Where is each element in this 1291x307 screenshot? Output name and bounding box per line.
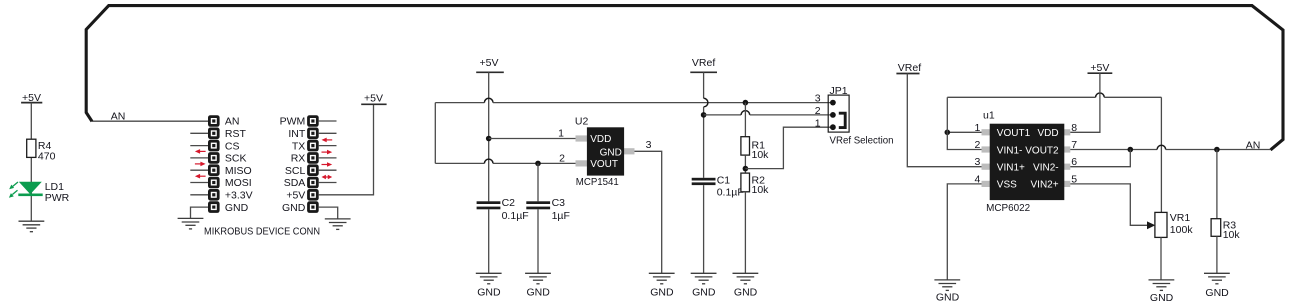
power symbol +5V (LED branch) [21,92,42,104]
red direction arrows right header [322,138,333,180]
op-amp U1 MCP6022 [982,110,1071,215]
svg-text:3: 3 [646,139,652,151]
ground (LED) [19,221,45,232]
svg-text:GND: GND [650,287,674,299]
red direction arrows left header [195,149,206,178]
svg-text:0.1µF: 0.1µF [717,187,744,199]
svg-text:+5V: +5V [480,57,499,69]
junction R1 / R2 / JP1 pin 1 [743,166,749,172]
wire VOUT rail left vertical [434,103,436,164]
wire U1 VIN2- pin 6 feedback [1070,150,1130,167]
svg-text:MOSI: MOSI [225,177,252,189]
svg-text:PWM: PWM [280,116,306,128]
svg-text:+5V: +5V [286,190,305,202]
capacitor C1 [692,175,744,199]
wire VRef rail to JP1 pin 2 [704,111,833,115]
resistor R2 [741,173,769,196]
connector right header (mikroBUS) pins [307,115,319,213]
svg-text:10k: 10k [1223,229,1241,241]
junction VOUT1 feedback [945,130,951,136]
svg-text:10k: 10k [752,149,770,161]
ground (R3) [1204,273,1230,299]
svg-text:MISO: MISO [225,165,252,177]
svg-text:VIN1+: VIN1+ [997,163,1025,174]
ground (VR1) [1149,280,1175,304]
svg-text:RX: RX [291,153,306,165]
wire AN to R3 [1216,150,1218,219]
svg-text:GND: GND [225,202,249,214]
wire U1 VIN1- pin 2 feedback loop [947,132,981,149]
junction VOUT rail / R1 [743,100,749,106]
voltage reference U2 MCP1541 [575,116,635,188]
capacitor C3 [526,197,570,222]
wire +5V vertical to C2 [488,72,490,201]
svg-text:U2: U2 [575,116,589,128]
svg-text:VSS: VSS [997,180,1017,191]
wire R4 to LED to ground [30,157,32,221]
ground (U1 VSS) [934,280,960,304]
wire GND pin right header [319,207,338,219]
svg-text:1µF: 1µF [552,210,570,222]
VR1 wiper arrowhead [1147,221,1155,229]
ground (C1) [691,273,717,298]
svg-text:RST: RST [225,128,247,140]
wire R1 top [744,103,746,137]
svg-text:+5V: +5V [364,93,383,105]
svg-text:VRef: VRef [898,62,921,74]
svg-text:VIN2+: VIN2+ [1031,180,1059,191]
svg-text:VR1: VR1 [1170,212,1191,224]
svg-text:AN: AN [111,111,126,123]
svg-text:GND: GND [527,287,551,299]
svg-text:3: 3 [974,156,980,168]
svg-text:MCP1541: MCP1541 [576,176,619,188]
ground (right header) [325,219,351,230]
wire VOUT rail to JP1 pin 3 [435,98,833,102]
svg-text:INT: INT [288,128,306,140]
svg-text:+3.3V: +3.3V [225,190,253,202]
junction AN / R3 [1214,147,1220,153]
junction VOUT2 / VIN2- [1128,147,1134,153]
svg-text:VOUT1: VOUT1 [997,128,1031,139]
potentiometer VR1 [1155,212,1193,237]
svg-text:u1: u1 [983,110,995,122]
power symbol VRef (right) [896,62,921,74]
svg-text:AN: AN [1246,140,1261,152]
svg-text:MCP6022: MCP6022 [986,202,1030,214]
wire U1 VIN2+ pin 5 to VR1 wiper [1070,184,1147,225]
wire VR1 to ground [1160,237,1162,280]
resistor R3 [1211,219,1240,241]
ground (R2) [733,273,759,298]
wire C3 vertical [537,163,539,201]
LED LD1 PWR [9,181,70,204]
capacitor C2 [477,197,529,222]
svg-text:1: 1 [558,127,564,139]
svg-text:SCL: SCL [285,165,306,177]
junction +5V / U2 VDD [486,136,492,142]
wire U2 VOUT pin 2 rail [435,159,575,163]
svg-text:SCK: SCK [225,153,247,165]
wire AN output U1 VOUT2 pin 7 [1070,145,1270,149]
svg-text:1: 1 [974,122,980,134]
wire U1 VOUT1 pin 1 [947,131,981,133]
svg-text:2: 2 [815,105,821,117]
svg-text:GND: GND [936,292,960,304]
resistor R4 [27,139,56,162]
svg-text:100k: 100k [1170,224,1194,236]
svg-text:C2: C2 [502,197,516,209]
svg-text:GND: GND [734,287,758,299]
svg-text:2: 2 [559,152,565,164]
wire stubs left header [190,133,208,195]
wire U2 VDD pin 1 [489,138,576,140]
svg-text:VDD: VDD [590,134,611,145]
wire R1 to R2 [744,155,746,173]
svg-text:GND: GND [477,287,501,299]
node AN left wire [92,120,208,122]
power symbol +5V (right) [1088,62,1113,74]
junction VOUT / C3 [535,161,541,167]
resistor R1 [741,137,769,162]
right header pin labels [280,116,306,214]
wire vertical down to VR1 top [1160,97,1162,212]
wire VRef to U1 VIN1+ pin 3 [907,74,981,167]
left header pin labels [225,116,253,214]
wire +5V to U1 VDD pin 8 [1070,73,1100,132]
power symbol VRef (middle) [690,57,717,73]
svg-text:VIN2-: VIN2- [1033,163,1059,174]
wire stubs right header [319,121,337,183]
svg-text:GND: GND [1150,292,1174,304]
wire feedback vertical up [946,97,948,132]
svg-text:VDD: VDD [1037,128,1058,139]
svg-text:C1: C1 [717,175,731,187]
ground (left header) [178,218,204,229]
junction VRef / JP1 rail [701,112,707,118]
svg-text:TX: TX [292,140,305,152]
wire divider tap to JP1 pin 1 [745,127,833,168]
wire top rail to VR1 with hop over +5V [947,93,1161,97]
svg-text:3: 3 [815,93,821,105]
wire C3 to ground [537,209,539,273]
svg-text:PWR: PWR [45,192,70,204]
svg-text:4: 4 [974,173,980,185]
svg-text:GND: GND [282,202,306,214]
svg-text:MIKROBUS DEVICE CONN: MIKROBUS DEVICE CONN [204,225,320,237]
svg-text:GND: GND [692,287,716,299]
svg-text:10k: 10k [752,184,770,196]
wire GND pin left header [191,207,209,218]
svg-text:VRef Selection: VRef Selection [830,135,894,147]
wire +5V to R4 [30,103,32,140]
svg-text:GND: GND [600,148,622,159]
svg-text:VIN1-: VIN1- [997,145,1023,156]
svg-text:VOUT: VOUT [590,159,618,170]
wire R3 to ground [1216,236,1218,273]
wire C1 to ground [703,185,705,273]
svg-text:0.1µF: 0.1µF [502,210,529,222]
svg-text:2: 2 [974,139,980,151]
wire +5V pin right header [319,104,374,195]
jumper JP1 VRef Selection [828,85,893,147]
wire U1 VSS pin 4 to ground [947,184,981,280]
svg-text:AN: AN [225,116,240,128]
power symbol +5V (right header) [361,93,386,105]
ground (C2) [476,273,502,298]
svg-text:+5V: +5V [1090,62,1109,74]
svg-text:C3: C3 [552,197,566,209]
wire C2 to ground [488,209,490,273]
svg-text:1: 1 [815,117,821,129]
wire VRef vertical with hop [704,72,708,178]
svg-text:VOUT2: VOUT2 [1025,145,1059,156]
wire AN thick bus route around top [86,6,1283,150]
svg-text:470: 470 [38,150,56,162]
wire R2 to ground [744,192,746,273]
wire U2 GND pin 3 [635,151,662,273]
svg-text:GND: GND [1205,287,1229,299]
ground (U2) [649,273,675,298]
svg-text:VRef: VRef [692,57,715,69]
ground (C3) [525,273,551,298]
power symbol +5V (middle) [476,57,504,73]
svg-text:CS: CS [225,140,240,152]
connector left header (mikroBUS) pins [208,115,220,213]
svg-text:SDA: SDA [284,177,306,189]
